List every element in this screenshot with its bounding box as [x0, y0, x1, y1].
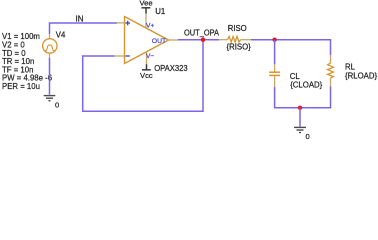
- ground 0 (under V4): [44, 96, 56, 101]
- wire bottom net CL to ground junction: [274, 107, 300, 109]
- node OUT_OPA junction dot: [201, 38, 205, 42]
- svg-text:Vcc: Vcc: [140, 71, 153, 80]
- svg-text:RISO: RISO: [228, 24, 247, 33]
- wire CL top vertical: [274, 40, 276, 65]
- svg-text:0: 0: [306, 132, 310, 141]
- svg-text:Vee: Vee: [140, 0, 153, 7]
- node CL junction dot: [272, 38, 276, 42]
- op-amp V+ power pin: [145, 14, 147, 29]
- svg-text:RL: RL: [345, 62, 356, 71]
- svg-text:PER = 10u: PER = 10u: [2, 82, 40, 91]
- wire feedback horizontal to inverting input: [83, 55, 115, 57]
- svg-text:CL: CL: [290, 72, 301, 81]
- capacitor CL: [269, 64, 280, 87]
- svg-text:IN: IN: [76, 14, 84, 23]
- svg-text:V+: V+: [146, 23, 154, 30]
- wire feedback right vertical up to OUT_OPA: [202, 40, 204, 112]
- marker + input: [125, 21, 130, 26]
- voltage source V4: [43, 34, 57, 58]
- op-amp pin + (non-inverting input stub): [117, 22, 125, 24]
- marker - input: [125, 55, 129, 57]
- resistor RL: [328, 55, 334, 86]
- source V4 parameter list: [2, 32, 52, 91]
- wire ground stub: [299, 108, 301, 127]
- op-amp pin OUT stub: [169, 39, 179, 41]
- svg-text:{CLOAD}: {CLOAD}: [290, 81, 322, 90]
- svg-text:V−: V−: [146, 53, 154, 60]
- op-amp pin - (inverting input stub): [115, 55, 125, 57]
- power symbol Vee bar: [142, 8, 151, 14]
- ground 0 (bottom): [294, 127, 306, 132]
- svg-text:V4: V4: [56, 30, 66, 39]
- svg-text:OPAX323: OPAX323: [154, 63, 188, 73]
- resistor RISO: [219, 37, 251, 43]
- power symbol Vcc bar: [142, 64, 151, 70]
- wire feedback bottom horizontal: [82, 110, 203, 112]
- svg-text:{RISO}: {RISO}: [227, 42, 252, 51]
- op-amp U1 triangle body: [125, 17, 169, 64]
- svg-text:U1: U1: [155, 7, 165, 16]
- wire bottom net RL to ground junction: [300, 107, 331, 109]
- wire feedback left vertical: [82, 55, 84, 111]
- wire RISO to RL corner: [251, 40, 331, 56]
- svg-text:OUT: OUT: [152, 38, 166, 45]
- wire CL bottom vertical: [274, 87, 276, 108]
- node bottom ground junction dot: [298, 106, 302, 110]
- svg-text:OUT_OPA: OUT_OPA: [184, 27, 219, 37]
- wire RL bottom vertical: [330, 86, 332, 107]
- wire V4 top vertical: [49, 22, 51, 34]
- wire V4 to ground: [49, 58, 51, 95]
- svg-text:0: 0: [55, 101, 59, 110]
- wire IN net (top horizontal): [50, 22, 118, 24]
- wire op-amp output to RISO: [178, 39, 219, 41]
- svg-text:{RLOAD}: {RLOAD}: [345, 71, 377, 80]
- op-amp V- power pin: [146, 52, 148, 64]
